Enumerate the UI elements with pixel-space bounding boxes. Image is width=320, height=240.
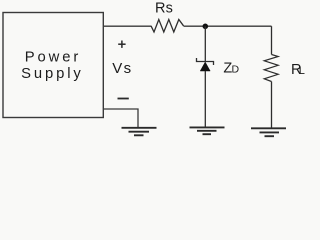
wire Rs to corner	[184, 25, 272, 27]
wire junction down to zener	[204, 26, 206, 61]
svg-text:L: L	[299, 65, 305, 77]
svg-text:Supply: Supply	[21, 66, 84, 82]
wire zener to ground	[204, 71, 206, 127]
svg-text:D: D	[232, 63, 240, 75]
ground RL	[251, 128, 286, 136]
label minus	[118, 98, 129, 100]
power supply box	[3, 13, 103, 118]
zener diode ZD cathode bar	[197, 58, 214, 65]
label +	[118, 41, 125, 48]
ground zener	[190, 127, 225, 134]
zener diode ZD triangle	[200, 62, 210, 71]
svg-text:Vs: Vs	[112, 60, 132, 77]
svg-text:Rs: Rs	[155, 0, 173, 16]
wire RL to ground	[271, 82, 273, 129]
wire box bottom to ground	[103, 109, 138, 128]
ground power supply	[122, 128, 157, 136]
wire corner down to RL	[271, 26, 273, 54]
resistor RL	[264, 55, 278, 82]
svg-text:Power: Power	[25, 50, 81, 66]
resistor Rs	[151, 20, 184, 33]
wire box to Rs	[103, 25, 151, 27]
node junction dot	[203, 24, 209, 30]
